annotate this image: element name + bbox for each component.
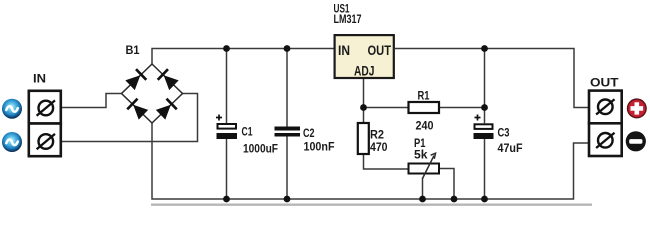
svg-text:240: 240 bbox=[416, 118, 434, 132]
svg-text:47uF: 47uF bbox=[498, 141, 523, 155]
svg-text:LM317: LM317 bbox=[334, 12, 362, 26]
svg-text:1000uF: 1000uF bbox=[243, 141, 278, 155]
svg-text:C3: C3 bbox=[498, 126, 510, 140]
svg-text:B1: B1 bbox=[126, 43, 140, 57]
svg-text:100nF: 100nF bbox=[304, 140, 335, 154]
svg-text:IN: IN bbox=[33, 71, 46, 85]
svg-text:R1: R1 bbox=[418, 88, 430, 102]
svg-text:OUT: OUT bbox=[590, 75, 619, 89]
svg-text:5k: 5k bbox=[414, 148, 428, 162]
svg-text:IN: IN bbox=[338, 43, 350, 58]
svg-text:ADJ: ADJ bbox=[354, 64, 375, 79]
svg-text:C1: C1 bbox=[242, 125, 253, 139]
svg-text:OUT: OUT bbox=[368, 43, 392, 58]
svg-text:C2: C2 bbox=[303, 126, 315, 140]
svg-text:470: 470 bbox=[370, 140, 388, 154]
